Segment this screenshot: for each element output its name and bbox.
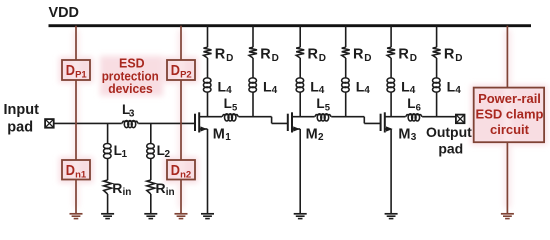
svg-text:3: 3	[129, 109, 135, 120]
svg-text:D: D	[410, 53, 417, 64]
svg-text:M: M	[398, 126, 410, 142]
svg-text:D: D	[66, 162, 75, 179]
svg-text:R: R	[398, 47, 409, 63]
svg-text:L: L	[407, 96, 415, 111]
svg-text:1: 1	[122, 149, 128, 160]
svg-text:D: D	[171, 62, 180, 79]
svg-text:n2: n2	[180, 169, 191, 180]
svg-text:4: 4	[272, 85, 278, 96]
svg-text:6: 6	[416, 103, 421, 114]
svg-text:in: in	[123, 187, 132, 198]
svg-text:VDD: VDD	[49, 5, 80, 21]
svg-text:4: 4	[455, 85, 461, 96]
svg-text:n1: n1	[75, 169, 87, 180]
svg-text:5: 5	[325, 103, 331, 114]
svg-text:M: M	[213, 126, 225, 142]
svg-text:4: 4	[319, 85, 325, 96]
svg-text:D: D	[319, 53, 326, 64]
svg-text:L: L	[316, 96, 324, 111]
svg-text:devices: devices	[108, 82, 153, 96]
svg-text:5: 5	[232, 103, 238, 114]
svg-text:D: D	[171, 162, 180, 179]
svg-text:R: R	[444, 47, 455, 63]
svg-text:R: R	[308, 47, 319, 63]
svg-text:R: R	[215, 47, 226, 63]
svg-text:Output: Output	[426, 124, 472, 140]
svg-text:D: D	[272, 53, 279, 64]
svg-text:D: D	[364, 53, 371, 64]
svg-text:P2: P2	[180, 70, 192, 81]
svg-text:Power-rail: Power-rail	[478, 91, 541, 106]
svg-text:D: D	[226, 53, 233, 64]
svg-text:circuit: circuit	[490, 122, 530, 137]
svg-text:R: R	[353, 47, 364, 63]
svg-text:3: 3	[411, 132, 417, 143]
svg-text:R: R	[156, 180, 166, 196]
svg-text:Input: Input	[3, 102, 39, 118]
svg-text:4: 4	[410, 85, 416, 96]
svg-text:M: M	[306, 126, 318, 142]
svg-text:4: 4	[364, 85, 370, 96]
svg-text:2: 2	[318, 132, 324, 143]
svg-text:R: R	[112, 180, 122, 196]
svg-text:ESD clamp: ESD clamp	[476, 106, 544, 121]
svg-text:D: D	[66, 62, 75, 79]
svg-text:in: in	[166, 187, 175, 198]
svg-text:D: D	[455, 53, 462, 64]
svg-text:L: L	[224, 96, 232, 111]
svg-text:pad: pad	[438, 140, 463, 156]
svg-text:1: 1	[225, 132, 231, 143]
svg-text:P1: P1	[75, 70, 87, 81]
svg-text:4: 4	[226, 85, 232, 96]
svg-text:R: R	[260, 47, 271, 63]
svg-text:2: 2	[165, 149, 171, 160]
svg-text:pad: pad	[7, 120, 33, 136]
